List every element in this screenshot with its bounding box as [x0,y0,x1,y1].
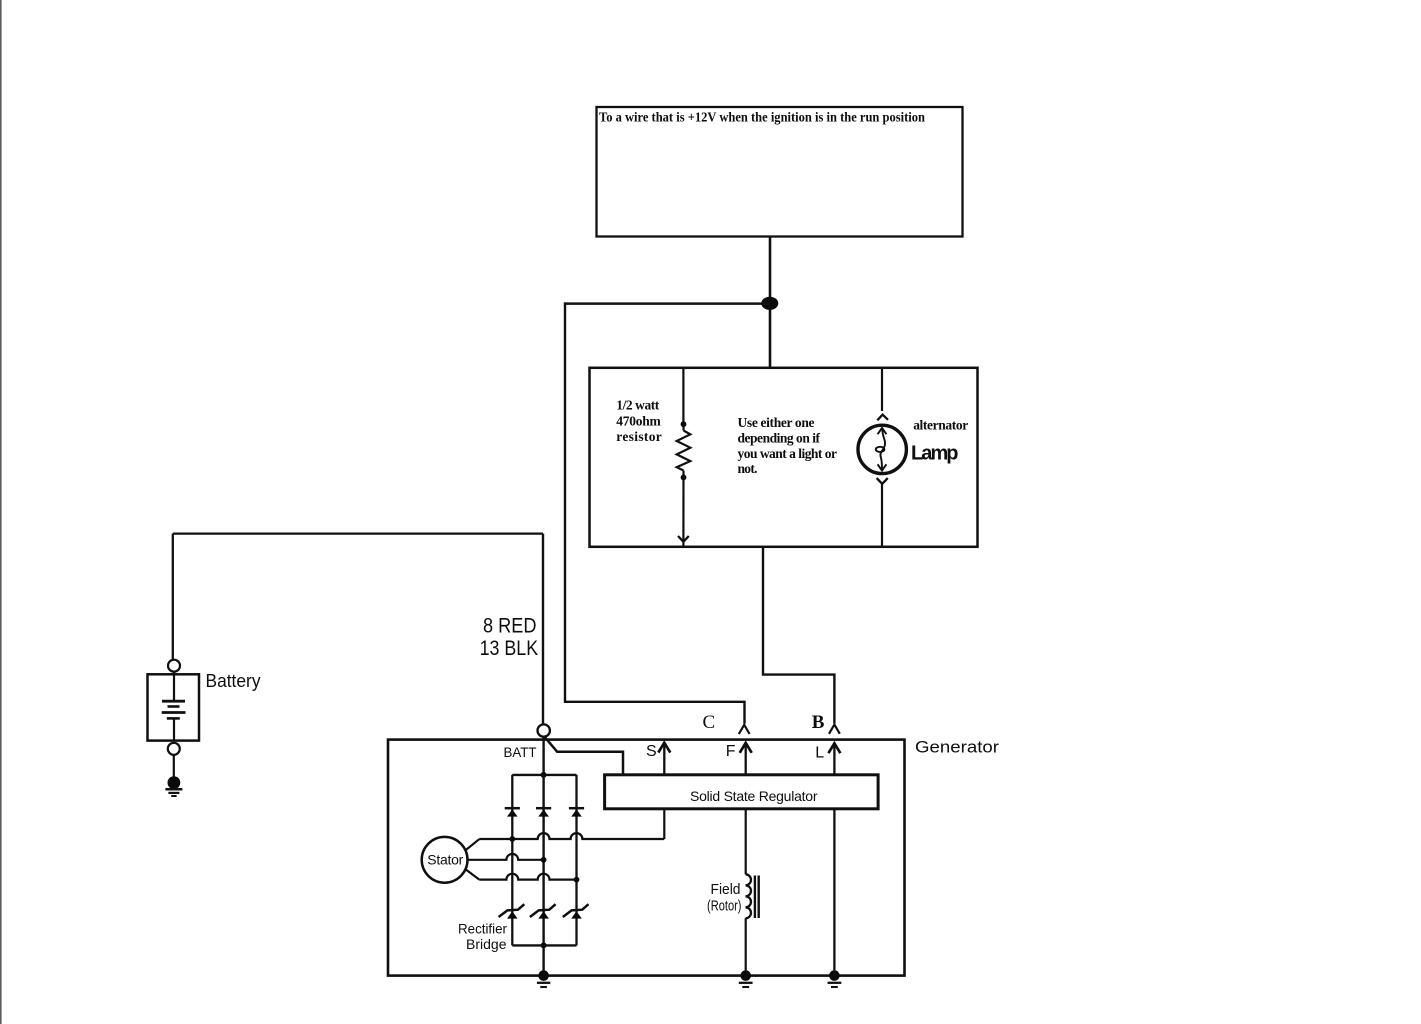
ground dot rectifier [538,970,549,981]
BATT terminal circle [538,724,550,736]
svg-text:not.: not. [738,461,758,476]
svg-text:(Rotor): (Rotor) [707,899,742,915]
wire junction to left [565,302,770,305]
svg-text:F: F [726,743,736,760]
svg-text:1/2 watt: 1/2 watt [616,398,660,413]
wire to BATT [542,534,544,726]
field rotor coil L2 [746,874,752,918]
svg-text:Solid State Regulator: Solid State Regulator [690,788,818,804]
svg-text:Stator: Stator [427,852,463,868]
upper diode D1 [505,807,520,810]
lower diode D6 [563,904,589,917]
lamp L1 circle [858,425,906,473]
ground bars under battery [165,788,182,791]
wire stator phase 3 row [479,874,576,880]
battery feed wire [173,532,543,534]
svg-text:S: S [646,743,657,760]
wire rectifier left leg [511,775,513,946]
wire stator phase 3 diagonal [466,869,480,879]
wire battery internal top [173,672,175,701]
wire battery drop [172,534,174,660]
upper diode D3 [569,807,584,810]
svg-text:Use either one: Use either one [738,415,815,430]
wire from note box to junction [769,236,772,368]
lamp inner arrow up [878,428,887,434]
svg-text:To a wire that is +12V when th: To a wire that is +12V when the ignition… [599,111,925,126]
generator box [388,740,905,976]
svg-text:Lamp: Lamp [911,443,959,465]
connector B chevron [829,725,840,734]
svg-text:you want a light or: you want a light or [738,446,838,461]
svg-text:BATT: BATT [504,744,537,760]
stator winding circle [422,837,468,883]
battery terminal bottom [168,743,180,755]
ground bars field [739,982,753,984]
wire battery to ground [173,755,175,777]
ground dot L [829,970,840,981]
svg-text:Bridge: Bridge [466,936,507,952]
svg-text:8 RED: 8 RED [483,615,537,638]
pin L arrow [833,744,835,774]
wire stator phase 2 row [467,854,543,860]
wire phase 1 to regulator [663,810,665,840]
svg-text:13 BLK: 13 BLK [480,637,538,660]
wire F to field coil [745,809,747,874]
battery plate long 2 [162,711,186,714]
wire [682,426,684,431]
svg-text:B: B [812,712,825,733]
svg-text:depending on if: depending on if [738,431,821,446]
battery plate short 1 [168,705,180,708]
svg-text:Rectifier: Rectifier [458,921,507,937]
lower diode D4 [499,904,525,917]
pin S arrow [663,744,665,774]
junction dot phase 2 [541,857,547,863]
battery ground [168,776,181,789]
wire L to ground [833,809,835,970]
junction dot BATT/top rail [541,772,547,778]
wire rectifier center leg [542,737,544,976]
ground bars L [828,982,842,984]
wire from lamp box bottom [763,547,834,724]
battery plate long 1 [162,700,185,703]
wire rectifier right leg [575,775,577,946]
svg-text:C: C [703,712,716,733]
lower diode D5 [530,904,556,917]
battery plate short 2 [167,717,180,720]
junction dot above R1 [681,421,687,427]
wire lamp branch bottom [881,484,883,547]
svg-text:L: L [815,745,824,762]
svg-text:alternator: alternator [913,417,968,432]
junction dot bottom rail [541,942,547,948]
wire lamp branch top [881,369,883,411]
wire stator phase 1 diagonal [465,839,479,850]
wire stator phase 1 row [479,833,664,839]
junction dot below R1 [681,475,687,481]
wire resistor branch bottom [682,471,684,548]
arrowhead down on resistor branch [678,536,689,542]
lamp filament wiggle [880,429,885,471]
upper diode D2 [536,807,551,810]
pin F arrow [745,744,747,774]
svg-text:470ohm: 470ohm [616,414,661,429]
connector C chevron [739,725,750,734]
junction dot phase 3 [574,877,580,883]
wire left drop to C [565,302,745,723]
lamp/resistor box [590,368,978,547]
node junction dot [761,297,778,310]
junction dot phase 1 [509,836,515,842]
svg-text:resistor: resistor [616,429,662,444]
wire field coil to ground [745,918,747,970]
scan page left edge [0,0,2,1024]
BATT to regulator wire [545,737,623,774]
battery terminal top [168,660,180,672]
field core bars [754,876,756,919]
ground dot field [740,970,751,981]
battery B1 box [148,674,200,740]
wire resistor branch top [682,369,684,422]
svg-text:Field: Field [711,882,741,898]
lamp filament loop [876,447,885,452]
wire rectifier top rail [512,774,576,776]
ignition note box [597,107,963,237]
ground bars rectifier [537,982,550,984]
resistor R1 zigzag [677,431,691,471]
chevron above lamp [877,415,888,421]
regulator U1 box [605,775,879,809]
wire rectifier bottom rail [512,944,576,946]
lamp inner arrow down [878,464,887,470]
chevron below lamp [877,478,888,484]
svg-text:Battery: Battery [206,671,261,691]
wire battery internal bottom [173,718,175,740]
svg-text:Generator: Generator [915,738,999,757]
